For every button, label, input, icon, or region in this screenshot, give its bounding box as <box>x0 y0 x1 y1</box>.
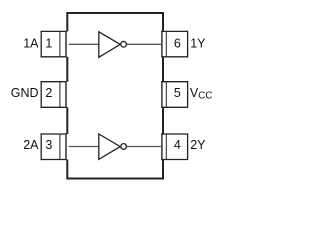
pin 6 box <box>161 31 188 58</box>
svg-text:GND: GND <box>11 86 39 100</box>
inverter U1B bubble <box>121 144 127 150</box>
inverter U1A triangle <box>99 32 120 58</box>
svg-text:6: 6 <box>174 37 181 51</box>
wire pin1 to inverter U1A input <box>67 43 99 45</box>
pin 4 box <box>161 133 188 160</box>
chip body U1 <box>67 13 163 179</box>
svg-text:1A: 1A <box>23 37 39 51</box>
wire U1B output to pin4 <box>127 146 163 148</box>
svg-text:1: 1 <box>45 37 52 51</box>
svg-text:2Y: 2Y <box>190 138 206 152</box>
wire U1A output to pin6 <box>127 43 163 45</box>
svg-text:2A: 2A <box>23 138 39 152</box>
svg-text:4: 4 <box>174 138 181 152</box>
inverter U1B triangle <box>99 134 120 159</box>
svg-text:1Y: 1Y <box>190 37 206 51</box>
svg-text:5: 5 <box>174 86 181 100</box>
pin 1 box <box>41 31 69 58</box>
svg-text:3: 3 <box>45 138 52 152</box>
pin 5 box <box>161 81 188 108</box>
wire pin3 to inverter U1B input <box>67 146 99 148</box>
pin 2 box <box>41 81 69 108</box>
inverter U1A bubble <box>121 41 127 47</box>
svg-text:2: 2 <box>45 86 52 100</box>
pin 3 box <box>41 133 69 160</box>
